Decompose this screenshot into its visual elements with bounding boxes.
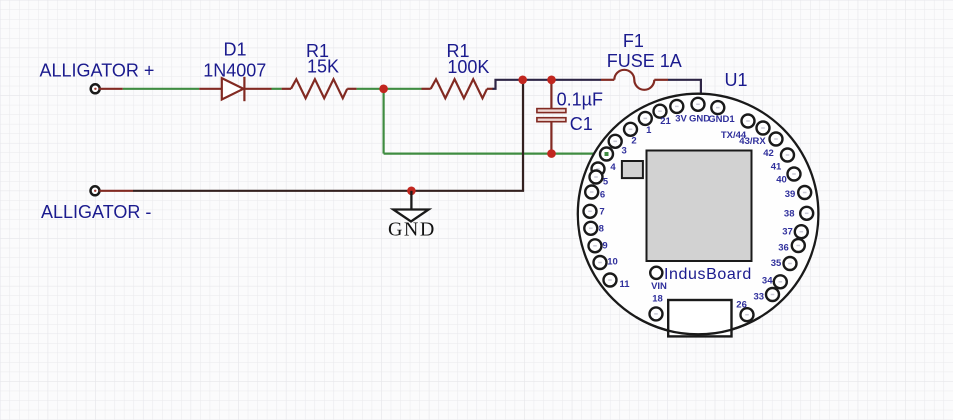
pin 7 [584,205,605,218]
pin 40 [776,168,800,186]
svg-text:43/RX: 43/RX [739,136,766,147]
junction node GND [407,187,416,196]
wire maroon fuse left lead [601,79,614,81]
svg-text:10: 10 [607,256,618,267]
svg-text:FUSE 1A: FUSE 1A [607,51,682,71]
wire green node A down [383,89,385,154]
wire maroon D1 anode lead [199,88,222,90]
pin 1 [639,112,652,136]
svg-text:ALLIGATOR -: ALLIGATOR - [41,202,151,222]
pin 18 [650,293,663,320]
terminal ALLIGATOR - [91,186,100,195]
svg-text:F1: F1 [623,31,644,51]
pin 10 [594,256,618,269]
junction node A [379,85,388,94]
svg-text:37: 37 [782,226,793,237]
resistor R1 100K [431,79,487,98]
junction node D (cap bottom) [547,149,556,158]
svg-text:38: 38 [784,208,795,219]
diode D1 [222,77,245,101]
chip aux square [622,161,643,178]
board U1 outline overlay arc [636,317,760,334]
wire maroon R1 left lead [282,88,291,90]
svg-text:15K: 15K [307,56,339,76]
svg-text:8: 8 [599,224,604,235]
svg-text:4: 4 [610,162,616,173]
terminal ALLIGATOR + [91,84,100,93]
fuse F1 [614,70,654,90]
wire maroon fuse right lead [654,79,668,81]
svg-text:7: 7 [599,207,604,218]
board U1 outline [578,94,819,335]
pin 34 [762,275,787,288]
junction node C (cap top) [547,76,556,85]
pin 43/RX [739,122,769,148]
wire navy to board GND pin [668,80,701,105]
wire maroon D1 cathode lead [244,88,271,90]
svg-text:VIN: VIN [651,281,667,292]
svg-text:6: 6 [600,190,605,201]
svg-text:100K: 100K [447,57,489,77]
svg-text:11: 11 [619,279,630,290]
pin 11 [604,274,631,290]
wire green node A to R2 [384,88,422,90]
pin 3V [670,100,687,125]
svg-text:3: 3 [622,145,627,156]
capacitor C1 [537,80,566,154]
svg-text:C1: C1 [570,114,593,134]
pin 5 [590,171,609,188]
pin 42 [763,133,782,160]
svg-text:26: 26 [736,300,747,311]
svg-text:40: 40 [776,174,787,185]
svg-text:36: 36 [778,242,789,253]
pin blank [609,135,622,148]
wire maroon R2 left lead [422,88,431,90]
resistor R1 15K [291,79,347,98]
svg-text:34: 34 [762,276,773,287]
svg-text:33: 33 [754,292,765,303]
svg-text:D1: D1 [223,40,246,60]
svg-text:GND1: GND1 [708,114,735,125]
wire maroon from - terminal [99,190,133,192]
svg-text:ALLIGATOR +: ALLIGATOR + [40,61,155,81]
svg-text:GND: GND [388,218,436,240]
pin 9 [589,239,608,252]
pin 26 [736,300,753,322]
wire navy bus jog up and to fuse [493,80,602,89]
svg-text:2: 2 [631,136,636,147]
pin TX/44 [721,115,755,142]
svg-text:42: 42 [763,148,774,159]
pin 4 [592,162,617,176]
wire green net D1 to R1 [272,88,282,90]
svg-text:U1: U1 [724,70,747,90]
pin GND [689,98,710,125]
wire maroon from + terminal [99,88,123,90]
wire maroon R2 right lead [487,88,494,90]
svg-text:GND: GND [689,114,710,125]
svg-text:IndusBoard: IndusBoard [664,266,752,283]
svg-text:21: 21 [660,116,671,127]
svg-text:5: 5 [603,177,609,188]
mounting circle IndusBoard [650,267,662,279]
USB connector [668,300,731,336]
pin 21 [654,105,672,128]
svg-text:41: 41 [771,161,782,172]
svg-text:3V: 3V [675,114,687,125]
svg-text:39: 39 [785,189,796,200]
wire green mid horizontal to board pin 3 [384,153,604,155]
wire green R1 to node A [357,88,384,90]
pin 6 [585,186,605,201]
svg-text:35: 35 [771,258,782,269]
pin 33 [754,288,779,303]
pin 38 [784,207,813,220]
svg-text:18: 18 [652,293,663,304]
wire green net to diode [123,88,199,90]
pin 36 [778,239,805,253]
ground symbol [393,191,428,222]
pin 8 [584,222,604,235]
pin 35 [771,257,797,270]
svg-text:1: 1 [646,125,652,136]
svg-text:0.1µF: 0.1µF [557,89,603,109]
svg-text:9: 9 [602,240,607,251]
pin 39 [785,186,811,200]
chip on board [647,151,752,262]
pin 3 [600,145,627,160]
pin 41 [771,149,794,173]
pin GND1 [708,101,735,125]
pin 37 [782,225,808,238]
pin 2 [624,123,637,147]
svg-text:1N4007: 1N4007 [203,61,266,81]
wire dark bottom net [133,190,524,192]
wire maroon R1 right lead [347,88,356,90]
wire dark vertical node B to bottom net [522,80,524,191]
junction node B [518,76,527,85]
